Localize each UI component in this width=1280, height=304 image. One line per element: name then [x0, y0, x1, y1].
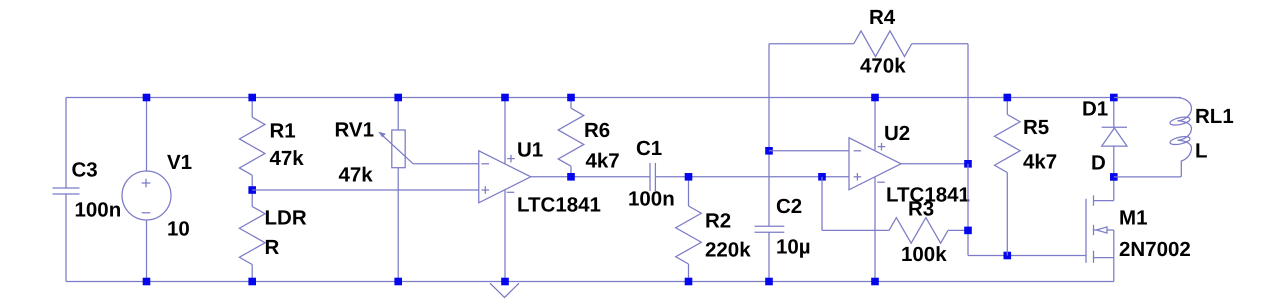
resistor LDR [239, 190, 306, 282]
node RV1 bottom [394, 278, 402, 286]
node R1 top [248, 94, 256, 102]
op-amp U2 [849, 122, 970, 207]
svg-text:4k7: 4k7 [1023, 151, 1057, 174]
svg-text:D1: D1 [1082, 98, 1108, 121]
diode D1 [1082, 98, 1127, 177]
svg-text:R4: R4 [869, 6, 896, 29]
svg-text:M1: M1 [1119, 207, 1147, 230]
svg-text:U1: U1 [517, 138, 543, 161]
relay coil RL1 [1114, 98, 1234, 177]
wire left branch lower [65, 194, 67, 282]
resistor R4 [769, 6, 968, 77]
wire coil bottom to D node [1114, 176, 1181, 178]
wire U2 output [901, 163, 968, 165]
node D1 top [1110, 94, 1118, 102]
svg-text:100n: 100n [75, 199, 122, 222]
node V1 top [143, 94, 151, 102]
svg-text:L: L [1195, 140, 1208, 163]
svg-text:RL1: RL1 [1195, 105, 1234, 128]
svg-text:100n: 100n [628, 188, 675, 211]
node D1 bottom [1110, 173, 1118, 181]
svg-text:D: D [1091, 152, 1106, 175]
node R2 bottom [685, 278, 693, 286]
svg-text:47k: 47k [270, 147, 305, 170]
node V1 bottom [143, 278, 151, 286]
node LDR bottom [248, 278, 256, 286]
svg-text:10: 10 [167, 218, 190, 241]
wire top rail [66, 97, 1181, 99]
svg-text:470k: 470k [860, 54, 906, 77]
node U2 - input junction [765, 147, 773, 155]
transistor M1 [1086, 177, 1191, 282]
wire bottom rail [66, 281, 1114, 283]
wire left branch upper [65, 98, 67, 189]
svg-text:10µ: 10µ [776, 236, 811, 259]
wire RV1 wiper to U1 - input [413, 163, 479, 165]
node R6 bottom [567, 173, 575, 181]
svg-text:U2: U2 [884, 122, 910, 145]
resistor R3 [822, 198, 968, 267]
ground [490, 283, 519, 297]
svg-text:R3: R3 [908, 198, 934, 221]
svg-text:LDR: LDR [265, 207, 307, 230]
svg-text:R5: R5 [1023, 116, 1049, 139]
potentiometer RV1 [335, 98, 414, 282]
node U2 V- rail [871, 278, 879, 286]
voltage source V1 [122, 98, 192, 282]
wire U1 output to C1 [531, 176, 650, 178]
node R6 top [567, 94, 575, 102]
svg-text:RV1: RV1 [335, 119, 375, 142]
op-amp U1 [479, 138, 601, 216]
wire U2 - input [769, 150, 849, 152]
resistor R2 [676, 177, 752, 282]
wire C1 to U2 + input [655, 176, 849, 178]
resistor R1 [239, 98, 304, 191]
svg-text:2N7002: 2N7002 [1119, 238, 1191, 261]
svg-text:V1: V1 [167, 151, 192, 174]
resistor R5 [995, 98, 1058, 256]
wire U2 V- supply [874, 177, 876, 282]
wire U2 + drop [821, 177, 823, 231]
wire LDR node to U1 + input [252, 189, 479, 191]
node C1-R2 junction [685, 173, 693, 181]
capacitor C3 [53, 159, 122, 222]
svg-text:R: R [265, 236, 280, 259]
node R5 bottom junction [1004, 252, 1012, 260]
svg-text:C2: C2 [776, 195, 802, 218]
node U1 V- rail [501, 278, 509, 286]
node RV1 top [394, 94, 402, 102]
wire R4 left vertical to C2 [768, 44, 770, 226]
node U2 V+ rail [871, 94, 879, 102]
svg-text:C1: C1 [636, 137, 662, 160]
node C2 bottom [765, 278, 773, 286]
wire R4 right vertical [967, 44, 969, 164]
wire output to M1 gate [968, 255, 1086, 257]
node R5 top [1004, 94, 1012, 102]
node R1-LDR junction [248, 186, 256, 194]
svg-text:47k: 47k [339, 164, 374, 187]
wire output column [967, 164, 969, 256]
node R3 right [964, 227, 972, 235]
svg-text:C3: C3 [72, 159, 98, 182]
wire U1 V- supply [504, 190, 506, 282]
wire U1 V+ supply [504, 98, 506, 164]
svg-text:4k7: 4k7 [586, 150, 620, 173]
capacitor C1 [628, 137, 675, 211]
resistor R6 [558, 98, 620, 177]
node U1 V+ rail [501, 94, 509, 102]
wire U2 V+ supply [874, 98, 876, 151]
svg-text:LTC1841: LTC1841 [517, 194, 601, 217]
svg-text:R2: R2 [705, 210, 731, 233]
capacitor C2 [755, 195, 811, 282]
node U2 + input junction [818, 173, 826, 181]
svg-text:R6: R6 [584, 119, 610, 142]
svg-text:220k: 220k [705, 239, 751, 262]
svg-text:100k: 100k [901, 243, 947, 266]
svg-text:R1: R1 [270, 120, 296, 143]
node U2 output [964, 160, 972, 168]
